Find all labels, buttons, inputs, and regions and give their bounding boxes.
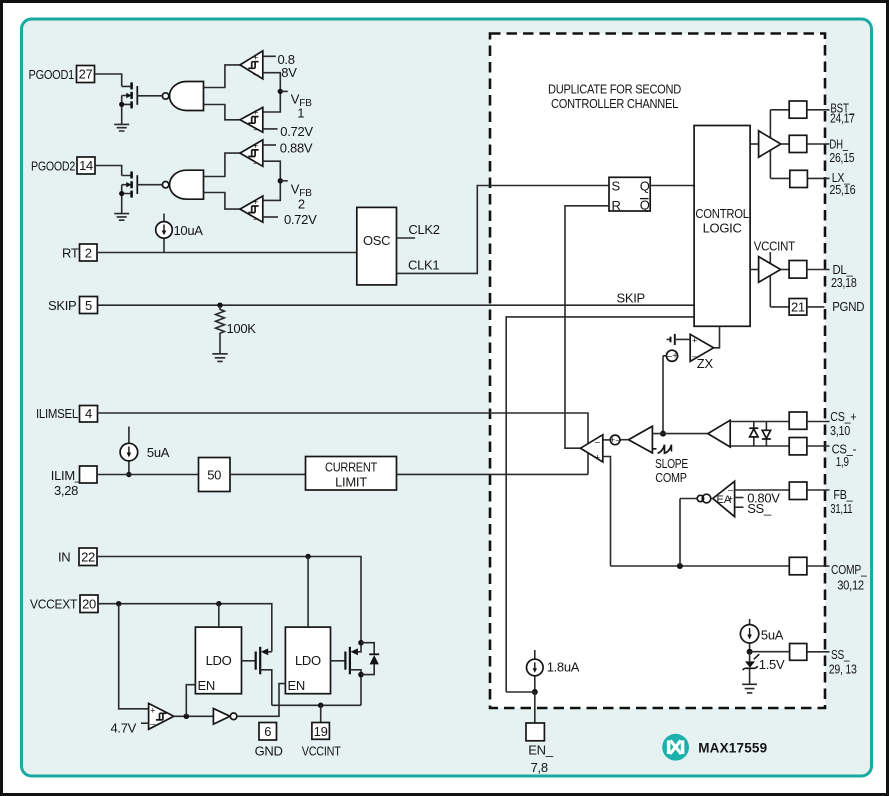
pin RT box 2 [80,244,98,261]
comparator U3 (PWM) [581,435,603,463]
regulator LDO1 box [195,627,241,694]
slope comp sawtooth symbol [652,445,671,454]
buffer U8 (DL driver) [750,257,789,283]
svg-text:24,17: 24,17 [830,111,855,126]
pin COMP_ box [789,557,807,575]
pin PGOOD1 box 27 [77,66,95,83]
transistor Q2 (PGOOD2 open-drain NMOS) [119,172,137,214]
svg-text:R: R [612,198,621,213]
svg-text:LDO: LDO [206,653,232,668]
wire LDO1 gate drive to Q3 [242,660,256,662]
wire IN to Q4 drain [97,557,361,643]
label COMP_ 30,12 [831,562,867,592]
dashed box: duplicate for second controller channel [490,34,825,709]
wire ZX output to control logic [714,326,720,348]
svg-text:19: 19 [314,724,328,739]
wire SS_ stub [807,651,830,653]
svg-text:31,11: 31,11 [830,501,852,516]
wire LDO1 top to VCCEXT [218,604,220,627]
offset source (ZX - input) [666,350,677,361]
wire adder output to summing node [620,439,629,441]
svg-text:–: – [253,157,259,167]
wire A1 - input to VFB1 node [263,73,281,112]
node VCCEXT / comparator sense [116,601,121,606]
comparator A2 (VFB1 UV, 0.72V) [240,107,263,134]
error amp U4 EA [713,481,735,516]
wire CS_- input [730,445,789,447]
svg-text:PGOOD1: PGOOD1 [29,67,75,82]
wire EA SS_ stub [735,506,744,508]
comparator A1 (VFB1 OV, 0.88V) [240,51,263,79]
label SLOPE COMP [655,456,688,485]
svg-text:ILIMSEL: ILIMSEL [36,406,78,421]
wire Q1 gate [137,95,162,97]
wire PGOOD2 to Q2 drain [95,166,122,176]
svg-text:S: S [612,179,621,194]
svg-text:7,8: 7,8 [531,760,548,775]
svg-text:50: 50 [207,467,221,482]
pin CS_+ box [789,412,807,429]
wire EA - input to FB_ pin [735,489,790,491]
wire A3 + input stub [263,144,276,146]
svg-text:FB_: FB_ [833,487,853,502]
svg-text:+: + [253,53,258,63]
svg-text:EN: EN [288,678,305,693]
pin EN_ box [526,723,544,741]
svg-text:CONTROL: CONTROL [695,206,749,221]
wire LDO2 gate drive to Q4 [331,660,346,662]
svg-text:5uA: 5uA [147,445,170,460]
svg-text:1.8uA: 1.8uA [547,660,580,675]
svg-text:100K: 100K [227,321,257,336]
svg-text:IN: IN [58,549,70,564]
current source I3 5uA (soft start) [740,619,758,652]
regulator LDO2 box [285,627,330,694]
battery symbol (ZX + threshold) [667,334,691,345]
label CS_- 1,9 [832,442,857,469]
wire EA output to COMP net [680,499,713,567]
buffer U7 (DH driver) [750,131,789,157]
pin VCCEXT box 20 [80,595,98,613]
svg-text:SKIP: SKIP [617,291,645,306]
svg-text:MAX17559: MAX17559 [698,741,767,756]
wire VCCINT net (Q3 source to VCCINT pin and Q4) [272,704,361,706]
wire Q output to control logic [650,185,694,187]
svg-text:10uA: 10uA [174,223,204,238]
svg-text:CURRENT: CURRENT [325,459,377,474]
svg-text:–: – [616,435,622,445]
comparator U9 ZX (zero cross) [690,334,713,361]
wire LX pin [770,177,790,179]
wire PGOOD1 to Q1 drain [95,74,122,86]
wire EN1 riser to LDO1 [186,685,195,717]
svg-text:DUPLICATE FOR SECOND: DUPLICATE FOR SECOND [548,81,681,96]
svg-text:26,15: 26,15 [829,150,854,165]
zener D4 1.5V [743,652,760,684]
label SS_ 29,13 [829,647,857,676]
summing node (offset) [610,435,622,445]
svg-text:Q: Q [640,179,650,194]
svg-text:SLOPE: SLOPE [655,456,688,471]
node EN junction [532,689,538,695]
NAND gate G2 (mirrored, PGOOD2) [162,170,203,199]
pin FB_ box [789,482,807,500]
wire EA 0.80V stub [735,497,744,499]
label FB_ 31,11 [830,487,853,516]
wire U5 output to inverter U6 and EN of LDO1 [174,715,214,717]
pin PGND box 21 [789,299,807,316]
pin DL_ box [789,261,807,279]
wire CLK2 stub [397,237,416,239]
node IN / LDO2 [305,554,310,559]
node U5 output / EN1 [184,714,190,720]
Maxim logo [662,734,689,761]
amplifier U10 (current sense) [708,420,730,447]
wire DL_ stub [807,269,830,271]
current source I4 1.8uA (EN) [527,650,544,692]
svg-text:29, 13: 29, 13 [829,661,857,676]
wire BST pin [770,109,789,111]
comparator A4 (VFB2 UV, 0.72V) [240,196,263,223]
wire CS_+ stub [807,421,830,423]
transistor Q1 (PGOOD1 open-drain NMOS) [119,82,137,124]
svg-text:CLK1: CLK1 [408,258,439,273]
svg-text:+: + [150,705,155,715]
svg-text:OSC: OSC [363,233,390,248]
wire Q2 gate [137,184,162,186]
wire comparator A2 output to G1 input [204,105,241,120]
label DL_ 23,18 [831,262,857,290]
wire DH_ stub [807,143,830,145]
wire LX_ stub [807,177,829,179]
svg-text:0.72V: 0.72V [280,124,313,139]
svg-text:22: 22 [81,549,95,564]
svg-text:2: 2 [85,245,92,260]
node VFB2 [278,178,288,183]
pin ILIMSEL box 4 [80,406,98,423]
svg-text:CLK2: CLK2 [408,222,439,237]
wire 4.7V - input stub [141,722,149,724]
svg-text:–: – [253,213,259,223]
svg-text:1.5V: 1.5V [759,657,785,672]
diode D3 (CS clamp) [762,422,771,447]
svg-text:COMP: COMP [655,470,687,485]
wire EN_ to control logic [506,317,694,692]
node VFB1 [278,89,288,94]
svg-text:+: + [595,453,600,463]
transistor Q3 (LDO1 pass FET) [256,647,272,706]
svg-text:25,16: 25,16 [829,182,855,197]
svg-text:+: + [610,435,615,445]
svg-text:+: + [253,197,258,207]
wire BST to LX riser (through DH buffer) [769,110,771,179]
wire summing node to PWM - input [603,439,611,441]
svg-text:20: 20 [82,596,96,611]
svg-text:LIMIT: LIMIT [335,474,367,489]
svg-text:VCCEXT: VCCEXT [30,597,77,612]
svg-text:+: + [728,493,733,503]
label CS_+ 3,10 [830,409,856,438]
adder U11 (slope comp summer) [629,426,653,453]
diode D1 (body diode) [361,643,379,675]
wire comparator A4 output to G2 input [204,193,241,210]
wire COMP_ stub [807,565,830,567]
svg-text:21: 21 [791,300,805,315]
pin ILIM_ box [80,466,98,483]
svg-text:RT: RT [62,245,79,260]
ground (Q1 source) [114,124,129,131]
svg-text:5: 5 [85,298,92,313]
wire LDO2 top to IN [307,557,309,628]
pin IN box 22 [79,548,97,566]
svg-text:–: – [253,124,259,134]
svg-text:30,12: 30,12 [837,577,864,592]
gain block 50 [199,458,231,492]
wire R input from PWM comparator U3 [565,206,609,448]
pin CS_- box [789,438,807,455]
svg-text:1,9: 1,9 [836,454,849,469]
svg-text:+: + [253,141,258,151]
current source I2 5uA [120,427,138,478]
wire U6 output to EN of LDO2 [237,684,286,717]
ground (zener) [742,684,757,693]
svg-text:3,10: 3,10 [830,423,850,438]
node Q4 drain / diode D1 [358,640,364,646]
wire 50 to current limit [230,473,306,475]
pin PGOOD2 box 14 [77,157,95,174]
svg-text:VCCINT: VCCINT [302,743,341,758]
wire COMP net to COMP_ pin [611,565,790,567]
svg-text:SS_: SS_ [747,501,772,516]
wire RT to OSC [97,252,357,254]
wire comparator A3 output to G2 input [204,153,241,176]
latch U2 (SR flip-flop) [609,177,650,213]
wire BST_ stub [807,109,830,111]
node Q4 source / diode D1 [358,672,364,678]
wire VCCEXT to Q3 drain [98,604,272,652]
svg-text:+: + [253,108,258,118]
wire A2 - input stub [263,128,278,130]
wire EN junction to EN net [506,691,535,693]
wire PGND pin [770,306,789,308]
svg-text:2: 2 [298,196,305,211]
transistor Q4 (LDO2 pass FET) [345,643,361,706]
comparator A3 (VFB2 OV, 0.88V) [240,140,263,167]
pin BST_ box [789,101,807,118]
wire EN_ pin stub [534,692,536,723]
svg-text:4.7V: 4.7V [111,720,137,735]
wire ILIM_ to gain block [97,474,199,476]
svg-text:–: – [595,436,601,446]
svg-text:CONTROLLER CHANNEL: CONTROLLER CHANNEL [551,96,678,111]
svg-text:ZX: ZX [697,356,714,371]
wire SS_ to pin [750,651,790,653]
current source I1 10uA [156,214,173,253]
wire FB_ stub [807,489,830,491]
svg-text:0.72V: 0.72V [284,212,317,227]
node VCCEXT / LDO1 [216,601,221,606]
svg-text:–: – [253,69,259,79]
node CS/ZX junction [660,431,666,437]
wire CS amp output to slope adder [652,433,707,435]
oscillator OSC box [357,207,397,285]
wire current limit output into PWM comparator block [397,473,589,475]
pin VCCINT box 19 [312,723,330,740]
label VFB1 [291,92,313,121]
wire CS_- stub [807,445,830,447]
svg-text:–: – [150,718,156,728]
wire A3 - input to VFB2 node [263,161,281,200]
svg-text:CS_+: CS_+ [830,409,856,424]
svg-text:4: 4 [85,406,92,421]
svg-text:8V: 8V [281,65,297,80]
svg-text:GND: GND [255,743,283,758]
wire VCCINT pin stub [320,705,322,722]
svg-text:0.88V: 0.88V [280,141,313,156]
node VCCINT pin junction [318,703,324,709]
inverter U6 [213,709,237,725]
ground (Q2 source) [114,214,129,221]
svg-text:EN_: EN_ [528,743,553,758]
pin LX_ box [790,170,808,187]
svg-text:PGND: PGND [832,299,864,314]
svg-text:5uA: 5uA [761,628,784,643]
svg-text:COMP_: COMP_ [831,562,867,577]
label 0.88V (wrapped) [278,52,298,80]
gm clamp circles (EA output) [697,494,711,503]
block CONTROL LOGIC [694,126,750,327]
label DH_ 26,15 [829,136,854,164]
comparator U5 (4.7V VCCEXT detect) [149,703,174,729]
wire CS_+ input [730,421,789,423]
label BST_ 24,17 [830,100,855,125]
label: DUPLICATE FOR SECOND CONTROLLER CHANNEL [548,81,681,111]
svg-text:6: 6 [264,724,271,739]
wire comparator A1 output to G1 input [204,65,241,88]
svg-text:27: 27 [79,67,93,82]
svg-text:Q: Q [640,197,650,212]
node SKIP/R1 junction [217,303,222,308]
label LX_ 25,16 [829,170,855,197]
wire VCCEXT sense down to comparator U5 [119,604,149,709]
svg-text:+: + [692,335,697,345]
svg-text:VCCINT: VCCINT [754,239,795,254]
svg-text:23,18: 23,18 [831,275,857,290]
block CURRENT LIMIT [306,457,397,491]
resistor R1 100K [216,305,225,353]
pin SKIP box 5 [80,297,98,314]
node COMP/EA junction [677,563,683,569]
wire PWM + input from COMP net [603,457,611,567]
pin SS_ box [790,644,807,661]
wire SKIP to control logic [98,304,695,306]
svg-text:ILIM_: ILIM_ [51,468,83,483]
svg-text:SS_: SS_ [831,647,850,662]
wire ILIMSEL into PWM comparator block [98,413,589,474]
svg-text:1: 1 [297,106,304,121]
diode D2 (CS clamp) [749,422,758,447]
svg-text:PGOOD2: PGOOD2 [31,158,75,173]
pin GND box 6 [259,723,277,741]
wire A1 + input stub [263,55,276,57]
NAND gate G1 (mirrored, PGOOD1) [162,82,203,111]
svg-text:3,28: 3,28 [54,483,78,498]
wire VCCINT to PGND riser (through DL buffer) [769,252,771,307]
label EN_ 7,8 [528,743,553,775]
node SS junction [747,649,753,655]
wire A4 - input stub [263,216,278,218]
pin ILIM_ label [51,468,83,498]
label VFB2 [291,182,313,212]
wire PGND stub [807,306,825,308]
svg-text:+: + [672,351,677,361]
wire ZX - input from CS node [663,356,666,434]
svg-text:SKIP: SKIP [48,298,76,313]
pin DH_ box [789,135,807,152]
svg-text:LDO: LDO [295,653,321,668]
wire CLK1 to S input of latch U2 [397,186,610,274]
svg-text:LOGIC: LOGIC [703,221,742,236]
ground (R1) [212,354,227,362]
svg-text:EN: EN [198,678,215,693]
svg-text:14: 14 [79,158,93,173]
